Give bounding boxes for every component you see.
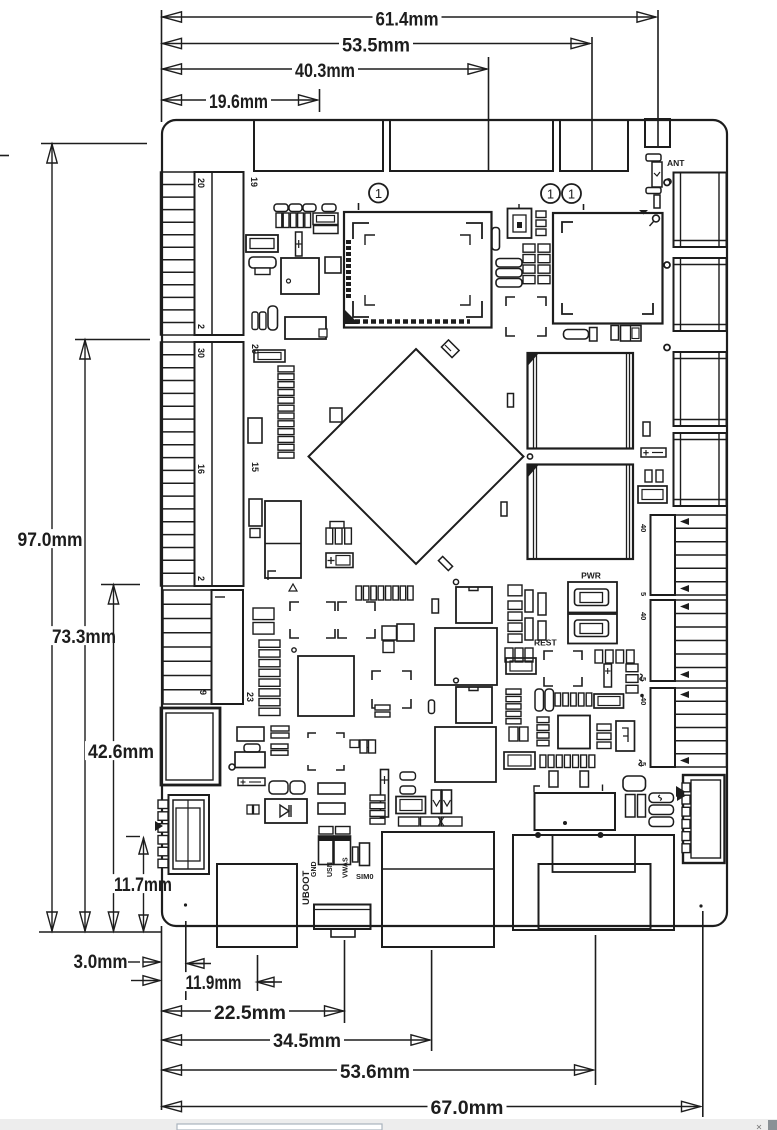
diode box D1 <box>265 799 307 823</box>
two pads <box>509 727 528 741</box>
polarized cap C5 <box>296 232 303 256</box>
svg-text:23: 23 <box>245 692 255 702</box>
bottom-left board reference dot <box>184 903 187 906</box>
dimension 53.6mm <box>163 1061 594 1083</box>
component with inner rect 2 <box>254 350 285 362</box>
small pads right <box>353 843 370 866</box>
tiny cursor mark <box>757 1125 761 1129</box>
pill below gsm <box>564 330 589 340</box>
small passive <box>643 422 650 436</box>
small passive right of CPU (upper) <box>508 394 514 408</box>
right edge terminal block T2 <box>651 600 727 681</box>
connector CN4 <box>246 235 278 252</box>
connector J1 pin ladder <box>161 172 195 335</box>
svg-text:PWR: PWR <box>581 571 601 581</box>
IC U8 <box>285 317 327 339</box>
svg-text:9: 9 <box>198 690 208 695</box>
svg-text:22.5mm: 22.5mm <box>214 1003 286 1024</box>
cap row 2 <box>540 755 595 768</box>
rotated passive near CPU bottom-right <box>438 556 452 570</box>
IC U16 (center-left big square) <box>298 656 354 716</box>
J4 pin1 arrow <box>155 821 163 831</box>
regulator with symbol <box>616 721 635 751</box>
svg-text:61.4mm: 61.4mm <box>376 9 439 30</box>
caps col <box>508 601 522 642</box>
transformer T1 <box>535 793 616 830</box>
svg-text:VWAS: VWAS <box>343 857 350 878</box>
svg-text:73.3mm: 73.3mm <box>52 627 116 648</box>
svg-text:40: 40 <box>639 612 648 620</box>
two pads below <box>549 771 589 787</box>
small passive left of CPU <box>330 408 342 422</box>
connector J3 pin ladder <box>163 590 212 704</box>
J3 pin 1 mark <box>215 596 225 598</box>
svg-text:1: 1 <box>375 186 382 201</box>
switch SW1 <box>568 582 617 613</box>
shield module U3 <box>528 353 634 449</box>
footprint FP4 <box>506 297 546 336</box>
resistor ladder RA2 <box>259 640 280 716</box>
J4 left pads <box>158 800 168 868</box>
tantalum with plus 3 <box>604 664 612 687</box>
IC U12 (big) <box>435 628 497 685</box>
svg-text:40: 40 <box>639 697 648 705</box>
top edge connector CN2 <box>390 120 553 171</box>
extension line 34.5mm right <box>431 950 433 1051</box>
small pill <box>429 700 435 714</box>
dimension 73.3mm <box>49 340 150 932</box>
extension line 53.5mm right <box>591 37 593 170</box>
CPU U5 (rotated 45deg) <box>309 349 524 564</box>
two pads <box>375 705 390 717</box>
footprint FP2 <box>338 602 375 638</box>
svg-text:15: 15 <box>250 462 260 472</box>
cap <box>508 585 522 596</box>
IC U15 <box>558 716 590 749</box>
window bar background <box>0 1119 777 1130</box>
dimension 53.5mm <box>163 35 591 57</box>
two tiny squares <box>382 626 397 653</box>
component with inner rect 6 <box>594 694 624 708</box>
window bar right square <box>768 1120 777 1130</box>
battery connector J4 <box>169 795 210 874</box>
mounting hole <box>453 579 458 584</box>
double component <box>621 326 642 342</box>
dimension extension line left (board left edge extended) <box>161 10 163 122</box>
component with inner rect 3 <box>638 486 667 503</box>
dimension 40.3mm <box>163 60 488 82</box>
svg-text:53.6mm: 53.6mm <box>340 1062 410 1083</box>
tall IC U9 <box>265 501 301 578</box>
right edge connector box B3 <box>674 352 727 426</box>
mounting holes right <box>664 180 670 186</box>
footprint FP3 <box>372 671 411 708</box>
dimension 42.6mm <box>85 585 157 932</box>
gsm module pin1 tick <box>583 204 585 210</box>
dimension 67.0mm <box>163 1097 701 1119</box>
right edge terminal block T3 <box>651 688 727 767</box>
dimension 22.5mm <box>163 1002 344 1024</box>
extension line 53.6mm right <box>595 935 597 1085</box>
index circles 1 1 (gsm) <box>541 184 581 203</box>
resistor col <box>506 689 521 724</box>
bottom-right board reference dot <box>699 904 702 907</box>
dimension 19.6mm <box>163 91 318 113</box>
top edge connector CN3 <box>560 120 628 171</box>
dimension 97.0mm <box>15 144 148 932</box>
tantalum cap with plus <box>326 553 353 568</box>
small pad <box>250 529 260 538</box>
small square IC <box>397 624 414 641</box>
svg-text:ANT: ANT <box>667 158 685 168</box>
wifi module pin1 tick <box>358 203 360 210</box>
svg-text:20: 20 <box>196 178 206 188</box>
svg-text:USN: USN <box>327 862 334 877</box>
svg-text:11.7mm: 11.7mm <box>114 875 172 896</box>
module shield can U10 (thick square) <box>161 708 220 785</box>
component with inner rect 7 <box>396 797 426 814</box>
two resistors <box>253 608 274 634</box>
two pills bottom <box>269 781 305 794</box>
crystal Y1 <box>235 744 265 768</box>
row of three <box>399 817 463 826</box>
right edge terminal block T1 <box>651 515 727 595</box>
pads col B <box>271 744 288 755</box>
connector J2 pin ladder <box>161 342 195 586</box>
ethernet connector J7 <box>513 832 674 930</box>
svg-text:42.6mm: 42.6mm <box>88 742 154 763</box>
SIM connector J8 <box>683 775 725 863</box>
arrow pin1 mark <box>677 790 686 801</box>
window bar input box <box>177 1124 382 1130</box>
component with inner rect 4 <box>506 658 536 674</box>
SIM pin1 arrow <box>676 786 685 797</box>
svg-text:19: 19 <box>249 177 259 187</box>
small resistor <box>314 226 339 234</box>
right edge connector box B4 <box>674 433 727 506</box>
SIM left pads <box>682 783 690 853</box>
extension tick 19.6mm right <box>319 89 321 112</box>
GND/USN/VWAS pads <box>319 827 351 865</box>
small passive right of CPU (lower) <box>501 502 507 516</box>
small IC U7 <box>325 257 341 273</box>
caps col <box>536 211 546 236</box>
inductor L1 <box>268 306 278 330</box>
svg-text:30: 30 <box>196 348 206 358</box>
bottom connector J5 <box>314 905 371 938</box>
antenna circuit ANT <box>646 154 662 208</box>
svg-text:2: 2 <box>196 576 206 581</box>
shield module U4 <box>528 465 634 560</box>
small passive <box>432 599 439 613</box>
small part left of RA1 <box>248 418 262 443</box>
pads col <box>626 664 638 693</box>
three caps <box>326 528 351 544</box>
svg-text:GND: GND <box>311 861 318 877</box>
index circle 1 (wifi) <box>369 184 388 203</box>
resistor R10 <box>237 727 264 741</box>
extension line 67.0mm right <box>702 911 704 1117</box>
small cap <box>330 522 344 529</box>
resistor col A <box>523 244 535 284</box>
resistor R11 <box>318 783 345 794</box>
crystal IC with pad <box>508 204 532 238</box>
connector J3 body <box>212 590 244 704</box>
gsm module U2 <box>553 213 663 324</box>
pill cap <box>492 228 500 251</box>
connector J2 body <box>195 342 244 586</box>
rotated passive near CPU top-right <box>441 340 459 358</box>
dual MOSFET pair <box>432 790 452 814</box>
USB connector J6 <box>382 832 494 947</box>
mounting hole bottom-left <box>229 764 235 770</box>
tantalum cap with plus 2 <box>641 448 666 457</box>
pads col C <box>370 795 385 824</box>
IC U6 <box>281 258 319 294</box>
pill horizontal <box>623 776 646 791</box>
electrolytic pad <box>249 499 262 526</box>
footprint FP5 <box>544 651 582 686</box>
two pills <box>535 689 554 711</box>
svg-text:40.3mm: 40.3mm <box>295 61 355 82</box>
IC U11 with notch <box>456 587 492 623</box>
extension line 40.3mm right <box>488 57 490 170</box>
resistor R12 <box>318 803 345 814</box>
baseline for left dimensions <box>39 931 161 933</box>
two small pads <box>252 312 266 330</box>
dimension 11.9mm <box>131 972 282 994</box>
IC U14 (big) <box>435 727 496 782</box>
tantalum vertical with plus <box>381 770 389 818</box>
capacitor row mid <box>356 586 413 600</box>
two tiny squares 2 <box>350 740 373 748</box>
svg-text:1: 1 <box>547 187 554 202</box>
cap row <box>555 693 592 706</box>
top row caps <box>595 650 634 663</box>
antenna connector box <box>645 119 670 147</box>
two pads <box>645 470 663 482</box>
board outline <box>162 120 727 926</box>
small pad <box>611 326 619 341</box>
resistor col 2 <box>537 717 549 746</box>
right edge connector box B1 <box>674 173 727 248</box>
antenna feed arrow <box>639 210 648 215</box>
component with inner rect 5 <box>504 752 535 769</box>
connector J1 body <box>195 172 244 335</box>
two tiny pills <box>360 740 376 753</box>
svg-text:2: 2 <box>196 324 206 329</box>
resistor col 3 <box>597 724 611 749</box>
svg-text:34.5mm: 34.5mm <box>273 1031 341 1052</box>
extension line 22.5mm right <box>344 940 346 1023</box>
svg-text:40: 40 <box>639 524 648 532</box>
two tiny squares <box>247 805 259 814</box>
right edge connector box B2 <box>674 258 727 331</box>
extension line 61.4mm right <box>657 10 659 147</box>
wifi module U1 <box>344 212 492 328</box>
vertical parts right <box>538 593 546 640</box>
dimension 11.7mm <box>111 837 175 932</box>
dimension 3.0mm <box>71 951 212 973</box>
two vertical pads <box>525 590 533 640</box>
antenna feed hole <box>666 179 671 184</box>
dimension 34.5mm <box>163 1030 431 1052</box>
extension line board left edge (bottom) <box>161 926 163 1110</box>
vertical pads pair <box>626 795 646 818</box>
tiny triangle mark <box>289 584 297 591</box>
tantalum with plus 4 <box>238 778 265 786</box>
SD card slot <box>217 864 297 947</box>
svg-text:16: 16 <box>196 464 206 474</box>
svg-text:19.6mm: 19.6mm <box>209 92 268 113</box>
dimension 61.4mm <box>163 9 657 31</box>
component with inner rect <box>313 213 338 225</box>
extension tick 11.9mm right <box>257 955 259 991</box>
mounting hole between shields <box>527 454 532 459</box>
extension line 3.0mm right reference <box>185 921 187 1000</box>
terminal block pin labels <box>639 524 648 766</box>
small pad <box>590 328 598 342</box>
switch SW2 <box>568 614 617 644</box>
three pills <box>496 259 522 288</box>
svg-text:1: 1 <box>568 187 575 202</box>
corner mark 2 <box>534 786 540 792</box>
capacitor row C2x <box>276 213 311 228</box>
svg-text:11.9mm: 11.9mm <box>186 973 242 994</box>
footprint FP1 <box>290 602 335 638</box>
stray mark far left edge <box>0 155 9 157</box>
capacitor pill row C1x <box>274 204 336 212</box>
svg-text:53.5mm: 53.5mm <box>342 35 410 56</box>
svg-text:SIM0: SIM0 <box>356 872 374 881</box>
svg-text:3.0mm: 3.0mm <box>74 952 128 973</box>
pills pair right <box>400 772 416 794</box>
svg-text:5: 5 <box>639 592 648 596</box>
buzzer/cap <box>249 257 276 275</box>
svg-text:97.0mm: 97.0mm <box>18 530 83 551</box>
hole near U16 <box>292 648 296 652</box>
resistor array RA1 <box>278 366 294 458</box>
squiggle marks <box>639 674 644 766</box>
three pills with S <box>649 793 674 827</box>
resistor col B <box>538 244 550 284</box>
pads col A <box>271 726 289 738</box>
footprint brackets horizontal <box>308 733 344 770</box>
caps under REST <box>505 648 533 662</box>
small tick <box>602 785 604 792</box>
IC U13 with notch <box>456 687 492 723</box>
svg-text:67.0mm: 67.0mm <box>431 1098 504 1119</box>
top edge connector CN1 <box>254 120 383 171</box>
corner mark <box>268 571 276 580</box>
